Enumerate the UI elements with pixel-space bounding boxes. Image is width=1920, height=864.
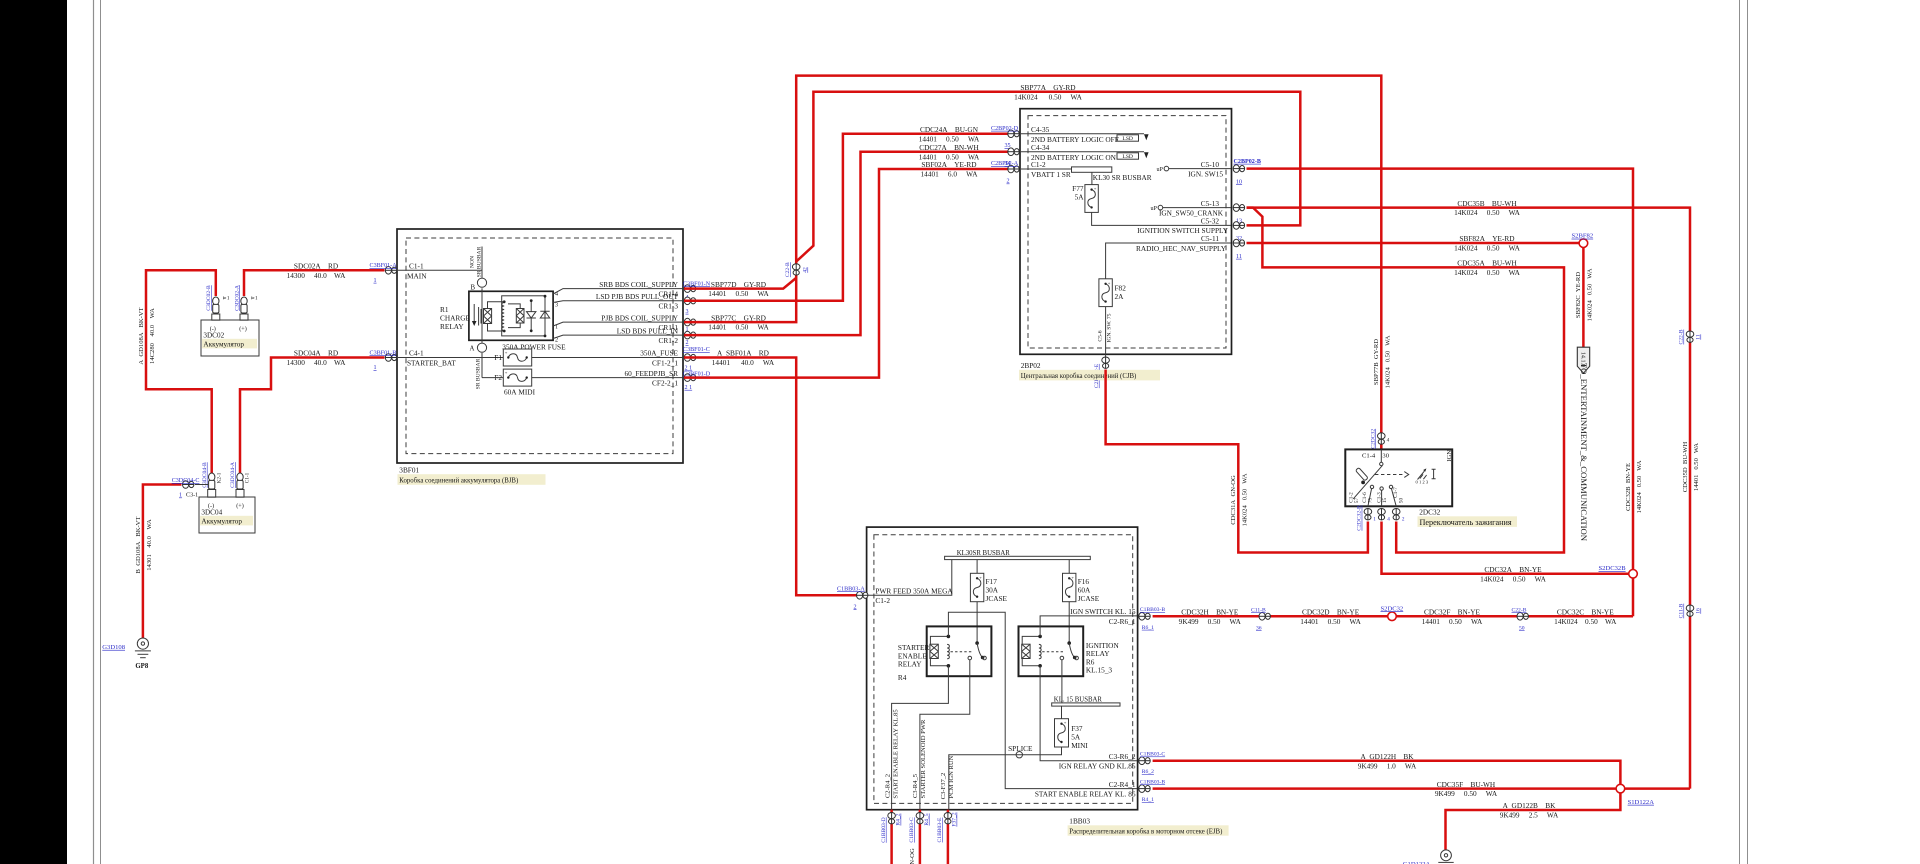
svg-text:+: +: [1064, 720, 1067, 725]
svg-text:C1-1: C1-1: [409, 262, 424, 271]
svg-text:4: 4: [1387, 517, 1390, 523]
svg-text:RELAY: RELAY: [898, 660, 922, 669]
connector C5-11: [1233, 239, 1245, 260]
svg-text:Переключатель зажигания: Переключатель зажигания: [1420, 518, 1512, 527]
connector C3BF01-A: [370, 263, 398, 284]
connector C1BB03-A: [837, 586, 868, 610]
svg-text:14300 40.0 WA: 14300 40.0 WA: [287, 271, 347, 280]
BJB pin C1-1 MAIN: [398, 262, 482, 281]
svg-text:9K499 2.5 WA: 9K499 2.5 WA: [1500, 811, 1559, 820]
connector C2DC32-B pin 57: [1357, 505, 1377, 531]
connector C22-B 11 on CDC35D: [1679, 329, 1702, 344]
connector C3BF01-B: [370, 350, 397, 371]
connector pin CR1-1: [684, 318, 696, 333]
svg-text:C3BF01-B: C3BF01-B: [370, 350, 397, 356]
svg-text:C3-R6_2: C3-R6_2: [1109, 752, 1136, 761]
svg-text:(+): (+): [236, 503, 244, 510]
svg-text:S1D122A: S1D122A: [1628, 799, 1655, 806]
svg-text:JCASE: JCASE: [986, 594, 1008, 603]
svg-text:B GD108A BK-VT: B GD108A BK-VT: [135, 517, 142, 574]
connector C5-13: [1233, 204, 1245, 225]
wire SBF02A: [684, 160, 1008, 377]
svg-text:CDC32H BN-YE: CDC32H BN-YE: [1181, 608, 1239, 617]
svg-text:C22-B: C22-B: [1679, 329, 1685, 344]
connector C2BP02-A: [991, 161, 1019, 184]
wire SBF82A: [1247, 234, 1584, 252]
svg-text:uP: uP: [1151, 206, 1158, 212]
svg-text:14401 40.0 WA: 14401 40.0 WA: [712, 358, 775, 367]
svg-text:2: 2: [1402, 517, 1405, 523]
svg-text:LSD: LSD: [1122, 154, 1133, 160]
svg-text:5A: 5A: [1075, 192, 1085, 201]
splice S2DC32: [1381, 605, 1404, 620]
svg-text:9K499 1.0 WA: 9K499 1.0 WA: [1358, 761, 1417, 770]
svg-text:START ENABLE RELAY KL. 86: START ENABLE RELAY KL. 86: [1035, 790, 1136, 799]
svg-text:14401 0.50 WA: 14401 0.50 WA: [1300, 617, 1361, 626]
svg-text:R4_5: R4_5: [924, 813, 930, 825]
svg-text:+: +: [979, 575, 982, 580]
svg-text:S2DC32: S2DC32: [1381, 605, 1404, 612]
svg-text:F1: F1: [494, 353, 502, 362]
svg-text:⊳1: ⊳1: [251, 296, 258, 302]
svg-text:350A_FUSE: 350A_FUSE: [640, 349, 678, 358]
svg-text:F37_2: F37_2: [952, 812, 958, 827]
BJB pin CR1-4: [599, 280, 678, 299]
relay pin line CR1-3: [553, 301, 684, 303]
svg-text:SDC04A RD: SDC04A RD: [294, 349, 338, 358]
CJB pin C4-35 2ND BATTERY LOGIC OFF: [1021, 125, 1149, 144]
svg-text:Центральная коробка соединений: Центральная коробка соединений (СЈВ): [1021, 373, 1137, 380]
svg-text:C5-32: C5-32: [1201, 217, 1220, 226]
svg-text:C3DC04-C: C3DC04-C: [172, 478, 200, 484]
svg-text:C1BB03-C: C1BB03-C: [1140, 752, 1165, 758]
svg-text:CDC35F BU-WH: CDC35F BU-WH: [1437, 780, 1496, 789]
svg-text:C1BB03-D: C1BB03-D: [881, 817, 887, 843]
svg-text:C1BB03-E: C1BB03-E: [937, 817, 943, 842]
svg-text:C22-B: C22-B: [785, 262, 791, 277]
svg-text:10: 10: [1236, 179, 1242, 185]
relay pin line CR1-1: [553, 322, 684, 326]
svg-text:+: +: [505, 370, 508, 375]
svg-text:11: 11: [1696, 334, 1702, 340]
connector C2BP02-E: [1094, 357, 1109, 388]
svg-text:Аккумулятор: Аккумулятор: [201, 518, 242, 526]
connector pin 15: [1378, 509, 1391, 523]
EJB pin C2-R6_1 IGN SWITCH KL.15: [1070, 607, 1136, 626]
svg-text:14401 0.50 WA: 14401 0.50 WA: [708, 289, 769, 298]
svg-text:C5-13: C5-13: [1201, 199, 1220, 208]
svg-text:C5-6: C5-6: [1097, 330, 1103, 341]
svg-text:R6_2: R6_2: [1142, 769, 1154, 775]
connector C2DC32 4 above switch: [1370, 429, 1389, 449]
connector C2BP02-B: [1233, 159, 1261, 186]
svg-text:2DC32: 2DC32: [1419, 508, 1440, 517]
svg-text:14300 40.0 WA: 14300 40.0 WA: [287, 358, 347, 367]
svg-text:C1BB03-B: C1BB03-B: [1140, 779, 1165, 785]
CJB title: [1019, 361, 1160, 380]
wire EJB bottom exit R4_5: [919, 810, 922, 864]
svg-text:+: +: [505, 350, 508, 355]
svg-text:C11-B: C11-B: [1251, 607, 1266, 613]
svg-text:2A: 2A: [1115, 292, 1125, 301]
node B: [471, 278, 487, 291]
svg-text:LSD BDS PULL_IN: LSD BDS PULL_IN: [617, 326, 679, 335]
svg-text:PCM IGN RUN: PCM IGN RUN: [948, 755, 955, 798]
wire SBP77D: [684, 278, 796, 298]
svg-text:C1-7: C1-7: [1393, 487, 1399, 498]
BJB pin C4-1 STARTER_BAT: [398, 349, 503, 368]
svg-text:3DC02: 3DC02: [203, 332, 224, 340]
EJB rotated pin label C3-R4_5: [912, 719, 927, 799]
svg-text:14K024 0.50 WA: 14K024 0.50 WA: [1554, 617, 1617, 626]
wire R6 coil bottom to C3-R6_2: [1040, 666, 1137, 761]
wire R4 switch to C3-R4_5: [920, 660, 970, 810]
svg-text:1: 1: [374, 365, 377, 371]
svg-text:14401 0.50 WA: 14401 0.50 WA: [1422, 617, 1483, 626]
connector C11-B 36: [1251, 607, 1271, 631]
svg-text:IGN: IGN: [1446, 450, 1453, 462]
svg-text:C1BB03-A: C1BB03-A: [837, 586, 865, 592]
svg-text:G3D108: G3D108: [102, 644, 125, 651]
svg-text:C1-2: C1-2: [1031, 160, 1046, 169]
svg-text:C4-34: C4-34: [1031, 143, 1050, 152]
svg-text:Коробка соединений аккумулятор: Коробка соединений аккумулятора (ВЈВ): [399, 477, 518, 484]
svg-text:A GD122B BK: A GD122B BK: [1503, 801, 1556, 810]
CJB box 2BP02: [1020, 109, 1232, 355]
wire CDC35B CDC35D: [1247, 199, 1701, 789]
battery 3DC02: [201, 314, 259, 356]
svg-text:CDC31A GN-OG: CDC31A GN-OG: [1230, 475, 1237, 525]
svg-text:S2DC32B: S2DC32B: [1599, 565, 1627, 572]
EJB box 1BB03: [867, 527, 1138, 810]
EJB busbar KL30SR: [945, 550, 1091, 560]
svg-text:C3DC04-B: C3DC04-B: [202, 462, 208, 488]
ground G3D108: [102, 638, 151, 670]
relay R4 STARTER ENABLE RELAY: [898, 626, 992, 682]
svg-text:C2-R6_1: C2-R6_1: [1109, 617, 1136, 626]
svg-text:+: +: [1071, 575, 1074, 580]
connector C1BB03-B R6_1: [1139, 607, 1166, 631]
svg-text:LSD: LSD: [1122, 136, 1133, 142]
svg-text:2: 2: [686, 340, 689, 346]
wire SDC04A: [240, 349, 385, 475]
node A: [470, 288, 487, 389]
svg-text:2 1: 2 1: [685, 385, 693, 391]
svg-text:CDC32C BN-YE: CDC32C BN-YE: [1557, 608, 1614, 617]
svg-text:(+): (+): [239, 326, 247, 333]
svg-text:C3-R4_5: C3-R4_5: [912, 773, 919, 798]
svg-text:C1BB03-B: C1BB03-B: [1140, 607, 1165, 613]
connector C5-32: [1233, 222, 1245, 243]
svg-text:14K024 0.50 WA: 14K024 0.50 WA: [1454, 208, 1521, 217]
BJB title: [398, 466, 546, 485]
svg-text:0 1 2 3: 0 1 2 3: [1416, 480, 1429, 485]
wire SBP77B label: [1373, 335, 1391, 388]
wire A_SBF01A: [684, 349, 857, 596]
svg-text:C3BF01-A: C3BF01-A: [370, 263, 398, 269]
connector C11-B 16 on CDC35D: [1679, 603, 1702, 618]
svg-text:50: 50: [1519, 625, 1525, 631]
svg-text:+: +: [1108, 280, 1111, 285]
relay R6 IGNITION RELAY: [1019, 626, 1120, 676]
svg-text:15: 15: [1382, 498, 1388, 504]
connector C22-B 50: [1512, 607, 1529, 631]
fuse F37 5A MINI: [1055, 706, 1089, 750]
svg-text:9K499 0.50 WA: 9K499 0.50 WA: [1435, 789, 1498, 798]
svg-text:2: 2: [854, 604, 857, 610]
CJB busbar KL30 SR BUSBAR: [1072, 167, 1152, 185]
svg-text:30: 30: [1382, 453, 1389, 460]
svg-text:14K024 0.50 WA: 14K024 0.50 WA: [1014, 92, 1082, 101]
CJB pin C4-34 2ND BATTERY LOGIC ON: [1021, 143, 1149, 162]
svg-text:CDC35D BU-WH: CDC35D BU-WH: [1682, 441, 1689, 492]
EJB pin C2-R4_1 START ENABLE RELAY KL.86: [1035, 780, 1136, 799]
wire battery2 to ground B_GD108A: [135, 485, 182, 639]
svg-text:R4_1: R4_1: [1142, 797, 1154, 803]
wire CDC32H chain: [1153, 608, 1633, 626]
svg-text:+: +: [1094, 186, 1097, 191]
svg-text:CDC32B BN-YE: CDC32B BN-YE: [1625, 463, 1632, 511]
svg-text:3: 3: [686, 309, 689, 315]
fuse F16 60A JCASE: [1063, 560, 1100, 644]
fuse F2 60A MIDI: [482, 369, 684, 397]
svg-text:IGN RELAY GND KL.85: IGN RELAY GND KL.85: [1059, 762, 1136, 771]
wire CDC24A: [684, 125, 1008, 301]
svg-text:C3-F37_2: C3-F37_2: [940, 773, 947, 800]
svg-text:14K024 0.50 WA: 14K024 0.50 WA: [1480, 574, 1547, 583]
svg-text:2: 2: [1007, 179, 1010, 185]
svg-text:3: 3: [555, 303, 558, 309]
svg-text:4: 4: [1387, 437, 1390, 443]
EJB rotated pin label C3-F37_2: [940, 755, 955, 799]
BJB pin CR1-1: [601, 313, 678, 332]
svg-text:42: 42: [803, 267, 809, 273]
connector C3BF01-N: [683, 281, 711, 301]
CJB pin C5-10 IGN SW15: [1157, 160, 1232, 179]
svg-text:14K024 0.50 WA: 14K024 0.50 WA: [1586, 268, 1593, 321]
svg-text:JCASE: JCASE: [1078, 594, 1100, 603]
svg-text:CDC32A BN-YE: CDC32A BN-YE: [1484, 565, 1542, 574]
BJB pin CF1-2_1: [640, 349, 678, 368]
svg-text:C11-B: C11-B: [1679, 603, 1685, 618]
svg-text:C1-2: C1-2: [875, 596, 890, 605]
svg-text:14K024 0.50 WA: 14K024 0.50 WA: [1384, 335, 1391, 388]
svg-text:TO_ENTERTAINMENT_&_COMMUNICATI: TO_ENTERTAINMENT_&_COMMUNICATION: [1579, 363, 1589, 542]
svg-text:C5-11: C5-11: [1201, 234, 1219, 243]
svg-text:60A MIDI: 60A MIDI: [504, 388, 536, 397]
svg-text:14401 0.50 WA: 14401 0.50 WA: [708, 323, 769, 332]
connector pin 50: [1392, 509, 1405, 523]
connector C1BB03-D R4_2: [881, 813, 902, 843]
svg-text:14K024 0.50 WA: 14K024 0.50 WA: [1454, 244, 1521, 253]
connector C1BB03-C R6_2: [1139, 752, 1166, 776]
svg-text:SBP77A GY-RD: SBP77A GY-RD: [1020, 83, 1075, 92]
BJB pin CF2-2_1: [624, 369, 678, 388]
svg-text:C3BF01-C: C3BF01-C: [683, 347, 710, 353]
fuse F77 5A: [1072, 184, 1231, 226]
connector C3DC04-C: [172, 478, 208, 499]
svg-text:C2BP02-D: C2BP02-D: [991, 126, 1019, 132]
splice SPLICE: [1008, 744, 1033, 758]
svg-text:uP: uP: [1157, 167, 1164, 173]
wire R4 coil top to C2-R4_1: [948, 612, 1137, 788]
BJB NON SR busbar: [470, 246, 483, 277]
svg-text:1BB03: 1BB03: [1069, 817, 1090, 826]
battery clamp C3DC02-A: [234, 285, 258, 313]
svg-text:CF1-2_1: CF1-2_1: [652, 358, 678, 367]
svg-text:A: A: [470, 346, 475, 353]
svg-text:C22-B: C22-B: [1512, 607, 1527, 613]
svg-text:IGN. SW. 75: IGN. SW. 75: [1107, 313, 1113, 342]
svg-text:SBF82A YE-RD: SBF82A YE-RD: [1459, 234, 1514, 243]
svg-text:14301 40.0 WA: 14301 40.0 WA: [146, 519, 153, 571]
svg-text:350A POWER FUSE: 350A POWER FUSE: [502, 342, 566, 351]
svg-text:RADIO_HEC_NAV_SUPPLY: RADIO_HEC_NAV_SUPPLY: [1136, 244, 1227, 253]
svg-text:C2BP02-A: C2BP02-A: [991, 161, 1019, 167]
wire IGN SW15 to CDC32B: [1247, 169, 1644, 617]
fuse F17 30A JCASE: [970, 560, 1007, 644]
svg-text:START ENABLE RELAY KL.85: START ENABLE RELAY KL.85: [892, 709, 899, 799]
svg-text:3DC04: 3DC04: [201, 509, 222, 517]
relay R1 CHARGE RELAY: [440, 288, 558, 343]
wire SBF82C: [1575, 248, 1593, 348]
connector pin CR1-3: [684, 297, 696, 315]
connector C3BF01-C: [683, 347, 710, 371]
wire battery1 negative A_GD108A: [138, 270, 216, 474]
EJB busbar KL15: [1052, 696, 1120, 706]
connector pin CR1-2: [684, 331, 696, 346]
wire battery1 positive SDC02A: [244, 262, 385, 297]
ignition switch box 2DC32: [1345, 449, 1453, 506]
off-page flag TO ENTERTAINMENT: [1577, 347, 1589, 542]
BJB box 3BF01: [397, 229, 683, 463]
svg-text:IGN. SW15: IGN. SW15: [1188, 169, 1223, 178]
connector C22-B 42: [785, 262, 808, 277]
svg-text:3BF01: 3BF01: [399, 466, 419, 475]
svg-text:SRB BDS COIL_SUPPLY: SRB BDS COIL_SUPPLY: [599, 280, 678, 289]
wire R6 coil top to C2-R6_1: [1040, 616, 1137, 637]
svg-text:CR1-2: CR1-2: [659, 336, 679, 345]
CJB pin C5-11 RADIO_HEC_NAV_SUPPLY: [1106, 234, 1231, 279]
svg-text:1: 1: [374, 278, 377, 284]
svg-text:9K499 0.50 WA: 9K499 0.50 WA: [1179, 617, 1242, 626]
svg-text:C4-35: C4-35: [1031, 125, 1050, 134]
wire CDC27A: [684, 143, 1008, 335]
wire EJB bottom exit F37_2: [947, 810, 950, 864]
wire CDC35A: [1247, 208, 1565, 553]
svg-text:SR BUSBAR: SR BUSBAR: [476, 358, 482, 389]
ignition switch title: [1418, 508, 1518, 528]
svg-text:R6_1: R6_1: [1142, 625, 1154, 631]
fuse F82 2A: [1097, 279, 1126, 358]
wire CDC32A: [1382, 522, 1629, 584]
relay pin line CR1-4: [553, 289, 684, 294]
svg-text:14401 0.50 WA: 14401 0.50 WA: [1693, 443, 1700, 491]
svg-text:50: 50: [1398, 498, 1404, 504]
svg-text:75: 75: [1367, 498, 1373, 504]
svg-text:SPLICE: SPLICE: [1008, 744, 1033, 753]
svg-text:14401 6.0 WA: 14401 6.0 WA: [921, 170, 979, 179]
CJB pin C5-13 IGN_SW50_CRANK: [1151, 199, 1232, 218]
svg-text:LSD PJB BDS PULL_OUT: LSD PJB BDS PULL_OUT: [596, 292, 679, 301]
connector C3BF01-D: [683, 371, 711, 391]
svg-text:MINI: MINI: [1071, 741, 1088, 750]
svg-text:60_FEEDPJB_SR: 60_FEEDPJB_SR: [624, 369, 678, 378]
svg-text:C2-R4_2: C2-R4_2: [884, 774, 891, 798]
svg-text:SDC02A RD: SDC02A RD: [294, 262, 338, 271]
svg-text:C2DC32-B: C2DC32-B: [1357, 505, 1363, 531]
svg-text:VBATT 1 SR: VBATT 1 SR: [1031, 170, 1071, 179]
svg-text:C4-1: C4-1: [409, 349, 424, 358]
wire R4 coil bottom to C2-R4_2: [892, 666, 949, 810]
svg-text:1: 1: [179, 493, 182, 499]
svg-text:C3-1: C3-1: [186, 493, 198, 499]
svg-text:36: 36: [1256, 625, 1262, 631]
svg-text:PWR FEED 350A MEGA: PWR FEED 350A MEGA: [875, 586, 953, 595]
svg-text:SBP77C GY-RD: SBP77C GY-RD: [711, 313, 766, 322]
CJB pin C5-32 IGNITION SWITCH SUPPLY: [1137, 217, 1229, 236]
relay pin line CR1-2: [553, 335, 684, 338]
svg-text:SR BUSBAR: SR BUSBAR: [477, 246, 483, 277]
svg-text:A GD122H BK: A GD122H BK: [1360, 752, 1414, 761]
svg-text:CDC24A BU-GN: CDC24A BU-GN: [920, 125, 979, 134]
svg-text:1: 1: [1373, 517, 1376, 523]
svg-text:CDC27A BN-WH: CDC27A BN-WH: [919, 143, 979, 152]
svg-text:57: 57: [1354, 498, 1360, 504]
svg-text:C1BB03-C: C1BB03-C: [909, 817, 915, 842]
battery clamp C3DC04-B: [202, 462, 223, 489]
fuse F1 350A POWER FUSE: [494, 342, 684, 366]
svg-text:C3DC02-A: C3DC02-A: [234, 285, 240, 311]
connector C2BP02-D: [991, 126, 1019, 149]
BJB pin CR1-2: [617, 326, 679, 345]
svg-text:SBP77B GY-RD: SBP77B GY-RD: [1373, 339, 1380, 385]
svg-text:C3DC04-A: C3DC04-A: [230, 462, 236, 488]
svg-text:CR1-3: CR1-3: [659, 302, 679, 311]
svg-text:KL30 SR BUSBAR: KL30 SR BUSBAR: [1093, 173, 1152, 182]
connector C1BB03-E F37_2: [937, 812, 957, 842]
svg-text:Аккумулятор: Аккумулятор: [203, 341, 244, 349]
svg-text:SBF82C YE-RD: SBF82C YE-RD: [1575, 272, 1582, 318]
svg-text:C2DC32: C2DC32: [1370, 429, 1376, 449]
svg-text:C1-1: C1-1: [245, 472, 251, 483]
svg-text:14K024 0.50 WA: 14K024 0.50 WA: [1636, 460, 1643, 513]
svg-text:SBF02A YE-RD: SBF02A YE-RD: [921, 160, 976, 169]
splice S1D122A: [1616, 784, 1654, 806]
svg-text:C2BP02-B: C2BP02-B: [1234, 159, 1261, 165]
svg-text:CDC32F BN-YE: CDC32F BN-YE: [1424, 608, 1480, 617]
svg-text:R4_2: R4_2: [896, 813, 902, 825]
svg-text:NON: NON: [470, 256, 476, 268]
svg-text:16: 16: [1696, 608, 1702, 614]
connector C1BB03-C R4_5: [909, 813, 930, 864]
EJB rotated pin label C2-R4_2: [884, 709, 899, 799]
svg-text:IGN SWITCH KL. 15: IGN SWITCH KL. 15: [1070, 607, 1136, 616]
CJB pin C1-2 VBATT 1 SR: [1021, 160, 1072, 179]
svg-text:Распределительная коробка в мо: Распределительная коробка в моторном отс…: [1069, 828, 1222, 835]
svg-text:STARTER_BAT: STARTER_BAT: [407, 359, 456, 368]
svg-text:CDC31B GN-OG: CDC31B GN-OG: [909, 848, 916, 864]
wire EJB bottom exit R4_2: [890, 810, 893, 864]
BJB pin CR1-3: [596, 292, 679, 311]
svg-text:KL.15_3: KL.15_3: [1086, 666, 1112, 675]
svg-text:S2BF82: S2BF82: [1572, 233, 1594, 240]
EJB pin C3-R6_2 IGN RELAY GND KL.85: [1059, 752, 1136, 771]
svg-text:11: 11: [1236, 254, 1242, 260]
wire A_GD122H: [1153, 752, 1621, 850]
svg-text:C1-4: C1-4: [1362, 453, 1376, 460]
wire CDC31A: [1106, 370, 1368, 553]
